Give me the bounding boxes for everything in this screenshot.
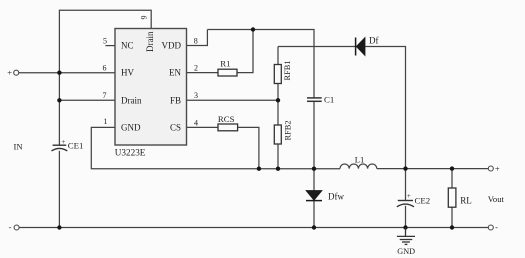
wire: NC pin 5 stub [105, 45, 115, 47]
node: output junction at Df/CE2 [403, 166, 407, 170]
wire: GND pin 1 down to ground net rail [91, 127, 340, 168]
node: output junction at RL [450, 166, 454, 170]
svg-text:Vout: Vout [488, 194, 505, 204]
node: switch rail junction at C1/Dfw [312, 167, 316, 171]
svg-text:+: + [7, 68, 12, 78]
svg-text:L1: L1 [355, 154, 365, 164]
svg-text:U3223E: U3223E [115, 148, 146, 158]
resistor R1 [218, 69, 237, 76]
capacitor CE1 (electrolytic) [52, 145, 68, 151]
svg-text:RFB2: RFB2 [283, 120, 292, 140]
wire: Dfw cathode stub to bottom rail [313, 201, 315, 228]
diode Df (cathode bar left, anode right) [356, 38, 365, 56]
svg-text:HV: HV [121, 68, 134, 78]
svg-text:-: - [9, 222, 12, 232]
svg-text:RL: RL [460, 195, 472, 205]
inductor L1 [340, 164, 377, 169]
svg-text:CE2: CE2 [415, 195, 431, 205]
diode Dfw (freewheel, pointing down) [306, 191, 322, 201]
wire: RL top lead [451, 169, 453, 188]
svg-text:+: + [61, 138, 65, 146]
node: input junction at HV [57, 71, 61, 75]
wire: RFB1 bottom to RFB2 top (FB node) [277, 84, 279, 126]
wire: RFB2 bottom to switch rail [277, 144, 279, 169]
svg-text:GND: GND [121, 123, 141, 133]
wire: bottom rail (input - to output -) [19, 227, 488, 229]
svg-text:Df: Df [369, 36, 379, 46]
svg-text:1: 1 [104, 117, 108, 126]
wire: FB pin 3 to divider node [187, 99, 279, 101]
wire: RFB1 top lead [277, 47, 279, 65]
resistor RFB1 [274, 65, 281, 84]
op-amp U1 body U3223E [115, 29, 187, 146]
wire: CE2 bottom lead [405, 206, 407, 228]
svg-text:RFB1: RFB1 [283, 60, 292, 80]
wire: input rail vertical below CE1 [58, 151, 60, 228]
svg-text:CE1: CE1 [68, 140, 84, 150]
wire: input rail vertical above CE1 [58, 73, 60, 146]
node: input junction at Drain pin 7 [57, 98, 61, 102]
node: bottom rail junction at Dfw [312, 225, 316, 229]
wire: CS pin 4 to RCS [187, 126, 219, 128]
wire: L1 to output + terminal [377, 168, 489, 170]
svg-text:Drain: Drain [121, 95, 142, 105]
svg-text:R1: R1 [220, 59, 230, 69]
svg-text:9: 9 [139, 16, 148, 20]
svg-text:4: 4 [194, 118, 198, 127]
svg-text:+: + [495, 163, 500, 173]
wire: R1 to VDD rail [237, 30, 253, 73]
output - terminal [488, 225, 493, 230]
node: bottom rail junction at CE1 [57, 225, 61, 229]
wire: VDD rail to C1 top [207, 30, 314, 98]
node: bottom rail junction at CE2/GND [403, 225, 407, 229]
wire: RL bottom lead [451, 207, 453, 227]
svg-text:7: 7 [103, 91, 107, 100]
svg-text:FB: FB [170, 95, 181, 105]
svg-text:5: 5 [103, 37, 107, 46]
svg-text:C1: C1 [324, 95, 334, 105]
input - terminal [14, 225, 19, 230]
svg-text:EN: EN [169, 68, 181, 78]
svg-text:IN: IN [14, 141, 24, 151]
svg-text:Dfw: Dfw [328, 191, 344, 201]
svg-text:2: 2 [194, 64, 198, 73]
svg-text:+: + [407, 192, 411, 200]
node: FB divider junction [276, 98, 280, 102]
wire: C1 bottom to switch rail [313, 101, 315, 168]
ground symbol [397, 228, 415, 245]
CE2 curved plate [397, 204, 414, 207]
node: VDD rail junction [251, 27, 255, 31]
svg-text:VDD: VDD [162, 41, 182, 51]
svg-text:Drain: Drain [145, 31, 155, 52]
svg-text:CS: CS [170, 123, 181, 133]
resistor RFB2 [274, 125, 281, 144]
node: switch rail junction at RFB2 [276, 167, 280, 171]
svg-text:-: - [495, 222, 498, 232]
svg-text:RCS: RCS [218, 114, 235, 124]
wire: top rail from input rail to pin 9 stub [59, 10, 151, 72]
wire: EN pin 2 to R1 [187, 72, 219, 74]
node: bottom rail junction at RL [450, 225, 454, 229]
node: switch rail junction at RCS [257, 167, 261, 171]
svg-text:NC: NC [121, 41, 134, 51]
wire: VDD pin 8 up to VDD rail [187, 30, 208, 46]
resistor RL [448, 188, 456, 207]
input + terminal [14, 70, 19, 75]
resistor RCS [218, 124, 238, 131]
svg-text:6: 6 [103, 64, 107, 73]
wire: Df anode to output vertical [365, 47, 406, 169]
wire: RCS to switch node rail [238, 127, 259, 168]
svg-text:GND: GND [397, 247, 415, 256]
svg-text:3: 3 [194, 91, 198, 100]
output + terminal [488, 166, 493, 171]
wire: CE2 top lead [405, 169, 407, 201]
capacitor CE2 (electrolytic) [398, 200, 413, 202]
svg-text:8: 8 [194, 36, 198, 45]
wire: Drain pin 7 to input rail [59, 99, 115, 101]
wire: input + to HV pin 6 [19, 72, 115, 74]
capacitor C1 [307, 98, 322, 101]
wire: Dfw anode stub [313, 169, 315, 191]
wire: divider top to Df cathode [278, 46, 356, 48]
